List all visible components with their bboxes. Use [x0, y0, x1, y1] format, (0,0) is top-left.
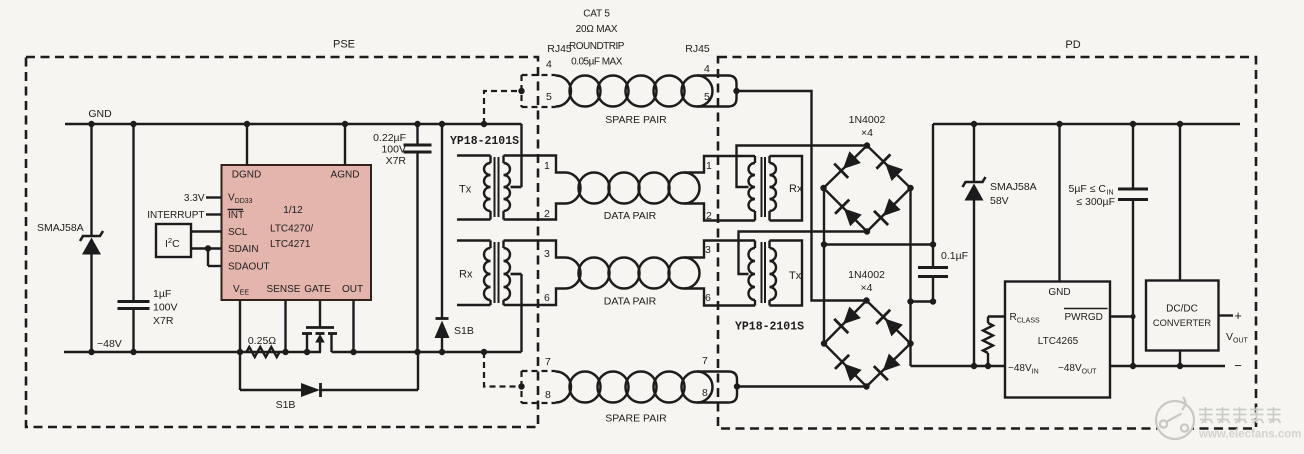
RJ45 right spare-45 bracket: [697, 76, 737, 107]
junction dot spare top feed: [518, 88, 524, 94]
svg-text:1µF: 1µF: [153, 288, 171, 300]
PD -48V rail right dots: [1130, 363, 1136, 369]
svg-text:−48V: −48V: [97, 338, 122, 350]
capacitor C2 0.22uF wire: [416, 124, 418, 145]
wire T2 top lead to pin3: [504, 241, 566, 258]
wire U3 bottom to -48V rail: [1179, 351, 1181, 367]
svg-text:SPARE PAIR: SPARE PAIR: [605, 413, 667, 425]
capacitor C3 0.1uF wire: [932, 245, 934, 268]
svg-text:×4: ×4: [861, 282, 873, 294]
wire T1 top lead to pin1: [504, 156, 566, 173]
wire U1 OUT down: [352, 300, 354, 352]
svg-text:CAT 5: CAT 5: [583, 9, 610, 20]
svg-text:ROUNDTRIP: ROUNDTRIP: [569, 41, 625, 52]
wire U2 GND to rail: [1058, 124, 1060, 282]
junction dot spare bottom feed: [518, 383, 524, 389]
svg-text:RJ45: RJ45: [685, 43, 710, 55]
transformer T4 chip-side bracket: [770, 241, 803, 306]
svg-text:SMAJ58A: SMAJ58A: [37, 222, 84, 234]
transformer T1 core: [494, 157, 496, 217]
svg-text:PD: PD: [1065, 39, 1080, 51]
svg-text:1N4002: 1N4002: [849, 114, 886, 126]
wire U2 PWRGD: [1110, 315, 1133, 317]
transformer T1 line winding: [502, 156, 504, 164]
junction dot right spare bottom: [734, 383, 740, 389]
transformer T4 core: [761, 242, 763, 303]
wire SDAIN to I2C: [191, 247, 222, 249]
diode D2 S1B: [301, 383, 320, 397]
node GND top rail: [65, 123, 522, 125]
transformer T4 chip winding arcs: [770, 248, 777, 300]
svg-text:4: 4: [546, 59, 552, 71]
RJ45 left spare-45 dashed box: [522, 75, 556, 107]
junction dot PWRGD: [1130, 314, 1135, 319]
svg-text:3: 3: [544, 248, 550, 260]
capacitor C2 plates: [404, 144, 432, 147]
transformer T3 chip winding arcs: [770, 163, 777, 211]
svg-text:LTC4270/: LTC4270/: [270, 224, 313, 235]
svg-text:SMAJ58A: SMAJ58A: [990, 181, 1037, 193]
transistor Q1 drain leg: [330, 334, 332, 353]
PSE boundary dashed box: [26, 57, 538, 427]
wire bridge minus tie: [909, 188, 911, 344]
B2 diode bottom-left: [835, 355, 863, 383]
junction dots on -48V rail: [88, 349, 94, 355]
svg-text:1/12: 1/12: [283, 205, 303, 216]
svg-text:GATE: GATE: [304, 284, 331, 295]
wire T1 center tap to GND: [511, 186, 522, 188]
op-amp U2 LTC4265 body: [1005, 282, 1110, 398]
svg-text:4: 4: [704, 63, 710, 75]
svg-text:0.25Ω: 0.25Ω: [248, 335, 276, 347]
svg-text:0.1µF: 0.1µF: [941, 250, 968, 262]
twisted pair spare 4-5: [556, 76, 571, 107]
junction dot C3 bottom: [930, 298, 936, 304]
svg-text:INT: INT: [228, 210, 244, 221]
svg-text:7: 7: [545, 356, 551, 368]
PD -48V rail left dots: [971, 363, 977, 369]
svg-text:2: 2: [544, 208, 550, 220]
svg-text:DGND: DGND: [232, 170, 261, 181]
B1 vertex dots: [864, 142, 870, 148]
svg-text:Tx: Tx: [459, 184, 472, 196]
svg-text:5: 5: [704, 91, 710, 103]
svg-text:PWRGD: PWRGD: [1065, 312, 1103, 323]
diode D4 SMAJ58A wire: [973, 124, 975, 182]
op-amp U1 LTC4270/LTC4271 body: [222, 165, 372, 300]
svg-text:58V: 58V: [990, 195, 1009, 207]
capacitor C4 plates: [1118, 188, 1148, 191]
svg-text:6: 6: [705, 292, 711, 304]
wire spare top to bridge2: [737, 91, 867, 301]
wire spare bottom to bridge2: [737, 385, 867, 387]
B2 diode bottom-right: [874, 352, 902, 380]
svg-text:AGND: AGND: [331, 170, 360, 181]
svg-text:100V: 100V: [381, 144, 406, 156]
wire pair3 to T4: [684, 241, 755, 258]
svg-text:3.3V: 3.3V: [184, 193, 205, 204]
resistor R2 RCLASS: [983, 323, 993, 353]
wire dashed -48V feed to spare pair: [484, 352, 518, 387]
diode bridge B2 1N4002 x4 frame: [824, 301, 911, 387]
svg-text:3: 3: [705, 244, 711, 256]
svg-text:Rx: Rx: [789, 183, 803, 195]
diode D3 S1B symbol: [436, 317, 449, 320]
transformer T2 chip-side stub bottom: [457, 304, 491, 306]
transformer T3 chip winding: [768, 156, 770, 163]
wire pair6 to T4: [684, 289, 755, 306]
svg-text:PSE: PSE: [333, 39, 355, 51]
svg-text:INTERRUPT: INTERRUPT: [147, 210, 204, 221]
svg-text:S1B: S1B: [454, 325, 474, 337]
wire plus rail riser: [824, 243, 933, 245]
node PD -48V rail left: [911, 365, 1006, 367]
capacitor C4 CIN wire: [1132, 124, 1134, 189]
svg-text:+: +: [1234, 308, 1242, 323]
transformer T4 line winding: [754, 241, 756, 249]
wire U1 VEE down: [239, 300, 241, 352]
svg-text:5µF ≤ C: 5µF ≤ C: [1069, 183, 1107, 195]
svg-text:CONVERTER: CONVERTER: [1153, 318, 1211, 328]
RJ45 right spare-78 bracket: [697, 372, 737, 403]
wire pair1 to T3: [684, 156, 755, 173]
wire U1 AGND to GND rail: [344, 124, 346, 165]
wire pair2 to T3: [684, 204, 755, 221]
node PD -48V rail right: [1110, 365, 1225, 367]
svg-text:20Ω MAX: 20Ω MAX: [576, 24, 618, 35]
watermark logo circle: [1156, 397, 1194, 439]
wire bridge plus tie: [823, 188, 825, 344]
twisted pair data 3-6: [565, 258, 580, 289]
B1 diode bottom-right: [874, 197, 902, 225]
transformer T2 line winding: [502, 241, 504, 249]
svg-text:1: 1: [544, 160, 550, 172]
svg-text:7: 7: [702, 355, 708, 367]
B1 diode top-right: [876, 154, 904, 182]
B2 diode top-left: [834, 305, 862, 333]
svg-text:LTC4271: LTC4271: [270, 239, 311, 250]
svg-text:DATA PAIR: DATA PAIR: [604, 210, 657, 222]
svg-text:I2C: I2C: [165, 236, 180, 250]
wire T2 center tap to -48V: [511, 273, 522, 275]
svg-text:0.22µF: 0.22µF: [373, 132, 406, 144]
transformer T3 line winding arcs: [749, 163, 756, 211]
junction dot SDA: [205, 245, 211, 251]
diode D3 S1B wire: [441, 124, 443, 319]
transformer T1 chip-side stub bottom: [457, 218, 491, 220]
junction dot plus riser: [930, 241, 936, 247]
transformer T1 chip winding: [489, 156, 491, 164]
transistor Q1 bulk arrow: [319, 338, 321, 352]
transformer T1 chip winding arcs: [484, 163, 491, 211]
svg-text:GND: GND: [88, 108, 112, 120]
B1 diode top-left: [834, 150, 862, 178]
wire T2 bottom lead to pin6: [504, 289, 566, 306]
svg-text:GND: GND: [1048, 287, 1070, 298]
transformer T2 core: [494, 242, 496, 303]
RJ45 left spare-78 dashed box: [522, 371, 556, 403]
wire S1B loop: [239, 352, 241, 390]
svg-text:YP18-2101S: YP18-2101S: [735, 321, 804, 334]
transformer T1 line winding arcs: [504, 163, 511, 211]
svg-text:≤ 300µF: ≤ 300µF: [1076, 196, 1115, 208]
capacitor C1 1uF wire: [132, 124, 134, 302]
transistor Q1 channel segments: [302, 332, 312, 335]
svg-text:×4: ×4: [861, 127, 873, 139]
svg-text:SCL: SCL: [228, 227, 248, 238]
node -48V bottom rail: [64, 351, 321, 353]
watermark text: [1199, 407, 1213, 423]
B1 diode bottom-left: [835, 200, 863, 228]
I2C block: [156, 224, 191, 257]
node PD GND rail: [933, 123, 1240, 125]
svg-text:SPARE PAIR: SPARE PAIR: [605, 114, 667, 126]
svg-text:www.elecfans.com: www.elecfans.com: [1198, 429, 1301, 441]
twisted pair data 1-2: [565, 173, 580, 204]
svg-text:Rx: Rx: [459, 269, 473, 281]
svg-text:6: 6: [544, 292, 550, 304]
PD boundary dashed box: [718, 57, 1256, 429]
transformer T2 line winding arcs: [504, 248, 511, 300]
wire SCL to I2C: [191, 230, 222, 232]
svg-text:1: 1: [706, 160, 712, 172]
svg-text:−: −: [1234, 358, 1242, 373]
wire T1 bottom lead to pin2: [504, 204, 566, 220]
svg-text:LTC4265: LTC4265: [1038, 336, 1079, 347]
transistor Q1 MOSFET gate plate: [306, 326, 334, 329]
wire T3 center tap to bridge1 top: [737, 146, 868, 188]
svg-text:1N4002: 1N4002: [848, 269, 885, 281]
svg-text:SENSE: SENSE: [267, 284, 301, 295]
wire U1 SENSE down: [284, 300, 286, 352]
transformer T3 line winding: [754, 156, 756, 163]
svg-text:100V: 100V: [153, 302, 178, 314]
capacitor C1 1uF plates: [118, 300, 150, 303]
svg-text:DC/DC: DC/DC: [1166, 304, 1198, 315]
transformer T1 chip-side stub top: [457, 154, 491, 156]
diode D4 SMAJ58A zener symbol: [963, 177, 986, 187]
svg-text:8: 8: [545, 389, 551, 401]
resistor R1 0.25ohm: [247, 347, 280, 357]
wire VDD33 stub: [206, 196, 222, 198]
PD GND rail dots: [971, 121, 977, 127]
wire U1 GATE down: [319, 300, 321, 327]
svg-text:IN: IN: [1107, 190, 1114, 197]
transformer T4 chip winding: [768, 241, 770, 249]
diode D1 SMAJ58A wire: [90, 124, 92, 236]
svg-text:X7R: X7R: [386, 155, 407, 167]
svg-text:OUT: OUT: [342, 284, 363, 295]
transformer T3 chip-side bracket: [770, 156, 803, 221]
capacitor C3 plates: [918, 266, 948, 269]
wire U1 DGND to GND rail: [246, 124, 248, 165]
transformer T4 line winding arcs: [749, 248, 756, 300]
transformer T2 chip winding: [489, 241, 491, 249]
svg-text:YP18-2101S: YP18-2101S: [450, 135, 519, 148]
op-amp U3 DC/DC converter body: [1146, 281, 1219, 351]
svg-text:8: 8: [702, 387, 708, 399]
twisted pair spare 7-8: [556, 372, 571, 403]
wire INT stub: [206, 213, 222, 215]
wire SDAOUT loop: [207, 249, 209, 267]
diode bridge B1 1N4002 x4 frame: [824, 146, 911, 232]
wire U3 input from GND rail: [1179, 124, 1181, 281]
svg-text:SDAOUT: SDAOUT: [228, 262, 270, 273]
svg-text:DATA PAIR: DATA PAIR: [604, 296, 657, 308]
transformer T3 core: [761, 157, 763, 217]
svg-text:SDAIN: SDAIN: [228, 244, 259, 255]
junction dots on GND rail: [88, 121, 94, 127]
junction dot plus tie: [821, 241, 827, 247]
transformer T2 chip-side stub top: [457, 239, 491, 241]
diode D1 SMAJ58A zener symbol: [80, 231, 103, 241]
wire T4 center tap to bridge1 bottom: [739, 232, 868, 275]
wire U3 output: [1219, 314, 1234, 316]
svg-text:0.05µF MAX: 0.05µF MAX: [571, 57, 623, 68]
wire dashed GND feed to spare pair: [484, 91, 518, 124]
svg-text:5: 5: [546, 91, 552, 103]
transistor Q1 source leg: [306, 334, 308, 353]
B2 diode top-right: [876, 310, 904, 338]
svg-text:X7R: X7R: [153, 315, 174, 327]
transformer T2 chip winding arcs: [484, 248, 491, 300]
B2 vertex dots: [863, 297, 869, 303]
svg-text:Tx: Tx: [789, 270, 802, 282]
svg-text:S1B: S1B: [276, 399, 296, 411]
junction dot right spare top: [733, 88, 739, 94]
junction dot minus tie: [907, 298, 913, 304]
wire U2 RCLASS: [988, 315, 1005, 317]
